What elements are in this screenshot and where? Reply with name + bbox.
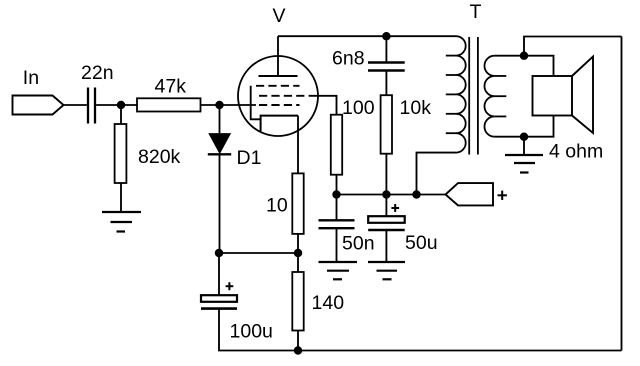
svg-text:V: V xyxy=(273,5,286,27)
svg-text:D1: D1 xyxy=(237,147,262,169)
transformer T label xyxy=(470,1,482,23)
svg-text:6n8: 6n8 xyxy=(332,48,365,70)
capacitor 50n xyxy=(319,220,355,228)
wire node K to ground xyxy=(523,137,525,155)
transformer secondary winding xyxy=(484,56,506,137)
wire 820k to ground xyxy=(120,183,122,212)
svg-text:4 ohm: 4 ohm xyxy=(549,141,603,163)
wire 50u to ground xyxy=(385,230,387,262)
resistor 140 xyxy=(292,272,303,331)
wire bottom rail xyxy=(298,350,622,352)
tube grid g3 dashed xyxy=(256,85,300,87)
plus sign 100u xyxy=(226,282,234,290)
label 100u xyxy=(230,321,273,343)
label 22n xyxy=(81,62,114,84)
node B junction xyxy=(216,102,223,109)
node H junction xyxy=(295,250,302,257)
tube V envelope xyxy=(238,56,318,136)
tube anode plate xyxy=(259,75,298,77)
label 50u xyxy=(405,232,438,254)
svg-text:T: T xyxy=(470,1,482,23)
label 50n xyxy=(342,233,375,255)
label 10k xyxy=(400,97,432,119)
wire 10 to node H xyxy=(297,234,299,253)
svg-text:50u: 50u xyxy=(405,232,438,254)
wire D1 to node C xyxy=(219,154,221,253)
label 140 xyxy=(312,292,345,314)
svg-text:10: 10 xyxy=(266,195,288,217)
wire anode lead up xyxy=(277,36,279,76)
wire 10k to node F xyxy=(385,154,387,195)
transformer core xyxy=(469,37,478,155)
wire 47k to node B xyxy=(201,104,257,106)
capacitor 100u xyxy=(201,295,237,308)
wire node J up to right rail xyxy=(524,37,622,56)
wire C22n to node A xyxy=(96,104,137,106)
resistor 10k xyxy=(381,95,392,154)
speaker xyxy=(533,57,594,134)
supply connector + xyxy=(446,183,494,205)
wire node E down to 6n8 xyxy=(385,36,387,62)
node G junction (supply) xyxy=(413,191,420,198)
node J junction (secondary top) xyxy=(521,52,528,59)
resistor 820k xyxy=(115,124,127,183)
label 4 ohm xyxy=(549,141,603,163)
svg-text:100u: 100u xyxy=(230,321,273,343)
wire secondary top to speaker xyxy=(495,56,554,76)
label 10 xyxy=(266,195,288,217)
wire node C to cathode node xyxy=(219,252,298,254)
wire node C down to 100u xyxy=(218,253,220,295)
svg-text:10k: 10k xyxy=(400,97,432,119)
svg-text:47k: 47k xyxy=(155,76,187,98)
node A junction xyxy=(118,102,125,109)
diode D1 xyxy=(208,134,231,154)
tube g3-cathode tie xyxy=(251,86,261,120)
wire 100u to bottom rail xyxy=(219,309,298,351)
tube grid g2 dashed xyxy=(259,95,312,97)
wire 140 to bottom rail xyxy=(297,331,299,351)
input connector In xyxy=(13,96,64,115)
wire primary bottom to node G xyxy=(417,153,457,195)
ground (820k) xyxy=(102,212,141,232)
wire 100 resistor to node D xyxy=(336,175,338,195)
svg-text:In: In xyxy=(23,67,39,89)
tube grid g1 dashed xyxy=(259,104,300,106)
label 47k xyxy=(155,76,187,98)
tube cathode xyxy=(261,116,298,131)
wire node H down to 140 xyxy=(297,253,299,272)
node E junction (6n8 top) xyxy=(383,33,390,40)
wire 50u branch down from node F xyxy=(385,195,387,217)
label D1 xyxy=(237,147,262,169)
capacitor 6n8 xyxy=(368,63,405,71)
node D junction xyxy=(333,191,340,198)
wire 6n8 to 10k xyxy=(385,71,387,96)
svg-text:140: 140 xyxy=(312,292,345,314)
wire g2 to 100 resistor xyxy=(312,96,337,115)
node K junction (secondary bottom) xyxy=(521,133,528,140)
wire node A down to 820k xyxy=(120,105,122,124)
node F junction xyxy=(383,191,390,198)
label 820k xyxy=(138,146,181,168)
wire input to C22n xyxy=(64,104,87,106)
svg-text:22n: 22n xyxy=(81,62,114,84)
label 6n8 xyxy=(332,48,365,70)
resistor 47k xyxy=(137,98,201,111)
ground (50u) xyxy=(368,262,405,279)
capacitor 50u xyxy=(368,216,405,230)
resistor 100 xyxy=(331,115,342,175)
wire cathode to 10 resistor xyxy=(297,116,299,174)
node I junction (bottom rail) xyxy=(295,347,302,354)
wire node B0 top: anode to transformer xyxy=(278,35,456,37)
wire node D down to 50n xyxy=(336,195,338,221)
wire right rail down xyxy=(621,37,623,351)
svg-text:50n: 50n xyxy=(342,233,375,255)
capacitor 22n xyxy=(88,88,95,124)
ground (speaker) xyxy=(505,155,543,173)
label 100 xyxy=(342,97,375,119)
wire node D to node G rail xyxy=(337,194,446,196)
label V xyxy=(273,5,286,27)
plus sign 50u xyxy=(391,204,399,212)
plus sign supply xyxy=(498,191,507,200)
transformer primary winding xyxy=(446,36,466,152)
wire 50n to ground xyxy=(336,228,338,262)
ground (50n) xyxy=(319,262,358,279)
label In xyxy=(23,67,39,89)
svg-text:100: 100 xyxy=(342,97,375,119)
wire secondary bottom to speaker xyxy=(495,116,554,137)
svg-text:820k: 820k xyxy=(138,146,181,168)
node C junction xyxy=(216,250,223,257)
resistor 10 xyxy=(292,173,303,234)
wire node B down to D1 xyxy=(219,105,221,134)
